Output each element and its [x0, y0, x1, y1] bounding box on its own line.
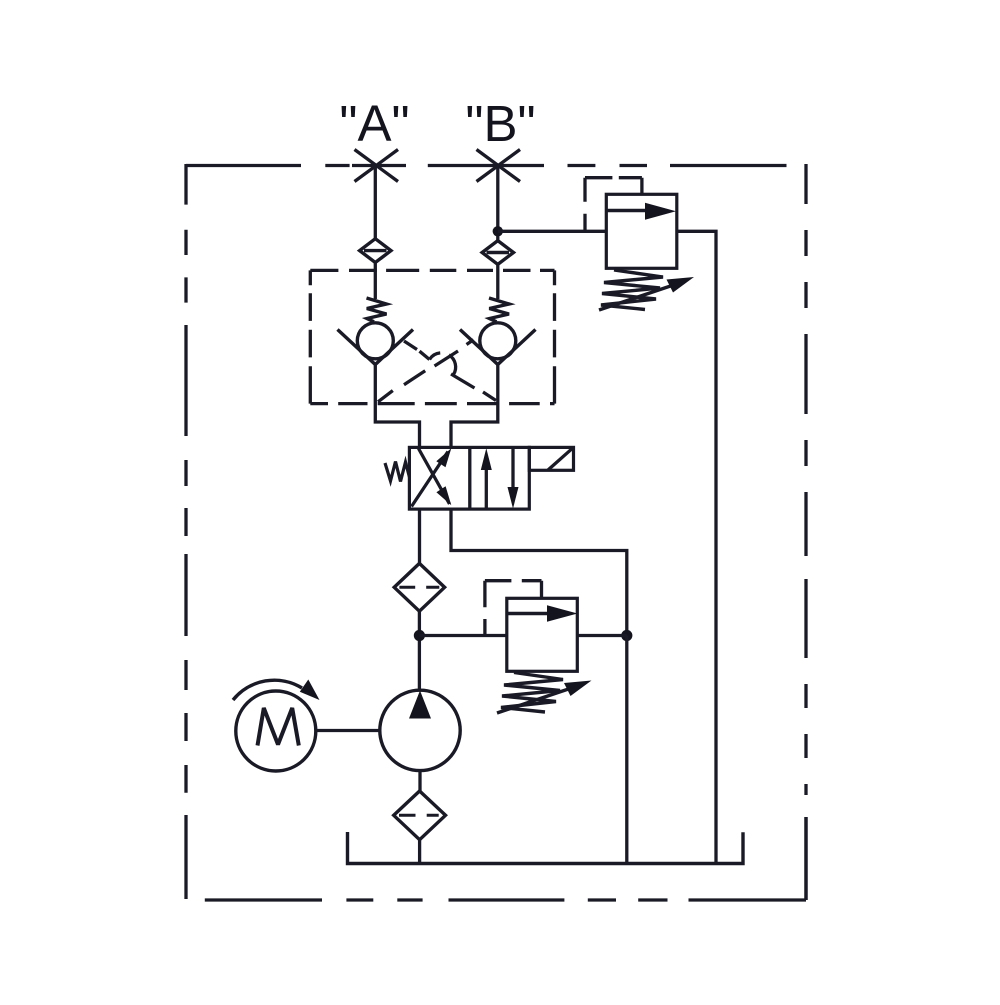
right edge [804, 164, 807, 900]
svg-text:"B": "B" [465, 95, 535, 152]
check valve CV-A spring [367, 298, 387, 322]
wire: orifice B to check spring [496, 264, 499, 299]
wire: CV-B outlet down and jog to valve port P2 [451, 365, 498, 448]
orifice/check A (diamond) [360, 239, 391, 263]
check valve CV-A (ball and seat) [338, 323, 414, 365]
pump flow triangle [409, 691, 431, 719]
left edge [184, 164, 187, 899]
wire: filter to pump junction [418, 611, 421, 690]
RV2 flow arrow [508, 612, 548, 616]
wire: orifice A to check spring [374, 263, 377, 300]
tank (reservoir) [348, 832, 744, 864]
wire: CV-A outlet down and jog to valve port P1 [375, 365, 419, 448]
wire: tank column junction down to tank [625, 636, 628, 864]
top edge [186, 164, 787, 167]
wire: RV2 outlet to tank column junction [577, 634, 627, 637]
DV crossed-flow arrows (left position) [412, 449, 450, 507]
junction node on B line [493, 226, 503, 236]
DV straight-flow arrows (right position) [485, 467, 488, 508]
pressure filter F1 (diamond) [394, 563, 444, 611]
check valve CV-B (ball and seat) [460, 323, 536, 365]
suction strainer F2 (diamond) [394, 791, 446, 840]
directional control valve DV (4/2 solenoid) [385, 447, 574, 509]
wire: port B down to orifice B [496, 166, 499, 241]
pilot line A-to-B (dashed diagonal) [378, 340, 474, 402]
junction node: pump outlet left [414, 630, 425, 641]
wire: valve port P1 down to pressure filter [418, 509, 421, 563]
RV1 adjustment arrow [599, 286, 672, 311]
RV1 body [606, 194, 677, 268]
dual pilot operated check valve assembly (dashed box) [310, 270, 554, 403]
wire: strainer to tank [418, 840, 421, 864]
bottom edge [205, 817, 806, 900]
plugged port B (X on boundary) [477, 150, 521, 182]
DV return spring [385, 462, 409, 482]
orifice/check B (diamond) [482, 241, 513, 265]
RV2 adjustment arrow [497, 689, 570, 714]
motor letter M [258, 708, 299, 746]
svg-text:"A": "A" [339, 95, 409, 152]
DV divider [468, 447, 471, 509]
check valve CV-B spring [489, 298, 509, 322]
electric motor M1 [233, 680, 320, 772]
pilot line B-to-A (dashed diagonal with hop) [404, 341, 496, 401]
wire: B junction to relief valve RV1 inlet [498, 230, 607, 233]
relief valve RV2 (system relief) [485, 581, 592, 713]
plugged port A (X on boundary) [352, 150, 406, 182]
wire: pump junction to relief valve RV2 inlet [419, 634, 506, 637]
RV2 spring [501, 673, 563, 713]
RV1 flow arrow [608, 209, 647, 213]
hydraulic pump P1 [380, 690, 460, 770]
DV solenoid [529, 447, 573, 470]
wire: port A down to orifice A [374, 166, 377, 239]
enclosure boundary (dashed envelope) [186, 164, 806, 900]
wire: RV1 outlet to tank column [677, 231, 716, 863]
rotation arrow arc [233, 680, 302, 700]
DV body [409, 447, 529, 509]
wire: valve port T down, right and down to tank column [451, 509, 627, 635]
RV1 spring [601, 270, 663, 310]
RV2 body [507, 598, 578, 671]
relief valve RV1 (top right) [585, 178, 694, 310]
wire: pump inlet to suction strainer [418, 771, 421, 791]
junction node: tank column [621, 630, 632, 641]
RV2 pilot line (dashed) [485, 581, 542, 636]
RV1 pilot line (dashed) [585, 178, 642, 232]
wire: motor shaft to pump [316, 729, 380, 732]
